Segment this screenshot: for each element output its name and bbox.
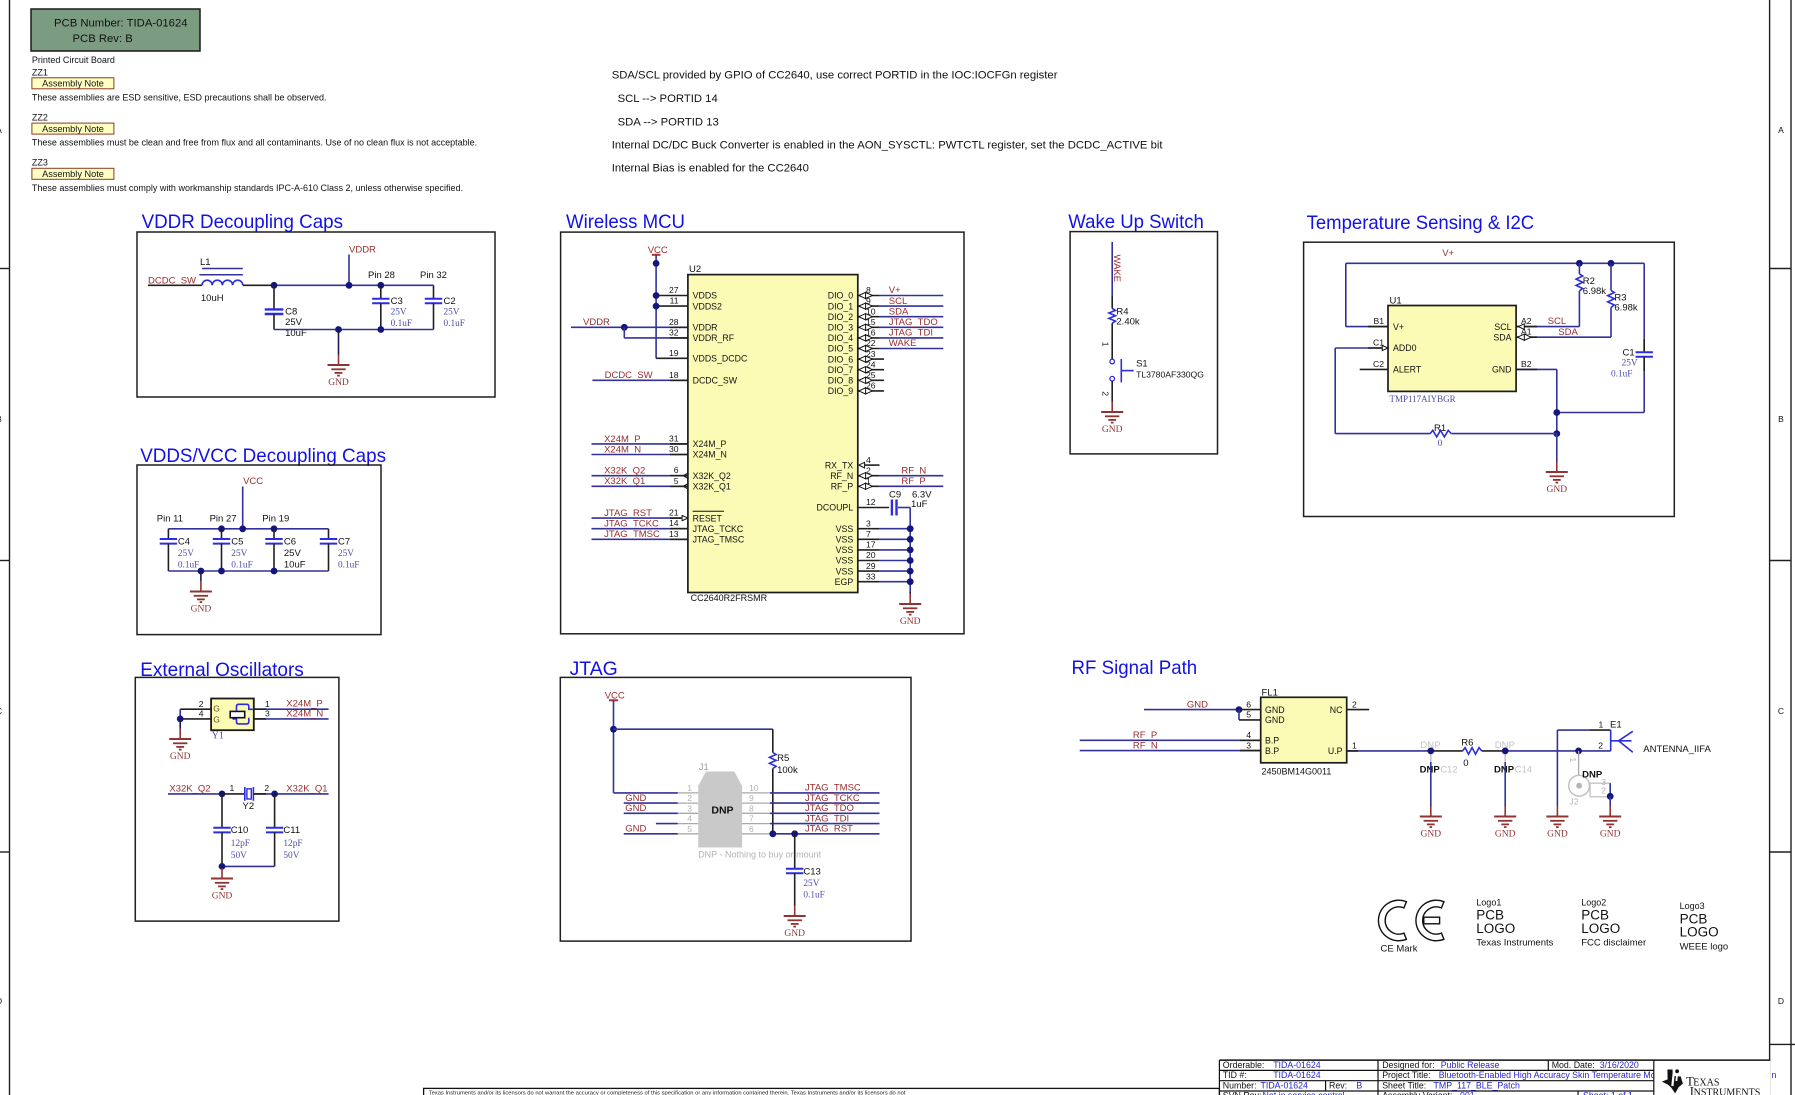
svg-text:27: 27: [669, 285, 679, 295]
pin stub J1 left 3: [678, 812, 698, 814]
svg-text:0.1uF: 0.1uF: [803, 891, 824, 901]
svg-text:3/16/2020: 3/16/2020: [1600, 1060, 1639, 1070]
svg-text:n: n: [1772, 1070, 1777, 1080]
svg-text:TL3780AF330QG: TL3780AF330QG: [1136, 370, 1204, 380]
wire DCDC_SW to L1: [148, 284, 202, 286]
svg-text:Internal Bias is enabled for t: Internal Bias is enabled for the CC2640: [612, 162, 809, 174]
ground C12: [1420, 806, 1442, 840]
svg-text:SCL: SCL: [1548, 316, 1566, 327]
wire J1 pin5 gnd: [624, 833, 678, 835]
power port VCC jtag: [605, 690, 625, 793]
svg-text:GND: GND: [1600, 830, 1621, 840]
wire VSS pin 3: [858, 518, 910, 528]
resistor R5: [770, 729, 798, 834]
ground osc section: [211, 868, 233, 902]
capacitor C10: [213, 794, 250, 867]
svg-text:R5: R5: [777, 753, 789, 764]
wire Y1 gnd stem: [179, 719, 181, 729]
svg-text:3: 3: [1246, 740, 1251, 750]
resistor R3: [1608, 263, 1638, 337]
svg-text:5: 5: [1246, 710, 1251, 720]
junction C14: [1502, 748, 1509, 755]
wire switch to gnd: [1111, 381, 1113, 402]
svg-text:C: C: [1778, 706, 1784, 716]
svg-text:VCC: VCC: [243, 476, 263, 487]
wire VDDR_RF branch: [624, 327, 688, 338]
svg-text:VDDS: VDDS: [693, 291, 718, 301]
pin arrow ADD0: [1382, 345, 1388, 350]
svg-text:C9: C9: [889, 490, 901, 501]
svg-text:C2: C2: [1373, 359, 1384, 369]
junction Pin 28: [377, 282, 384, 289]
svg-text:2: 2: [687, 793, 692, 803]
svg-text:0.1uF: 0.1uF: [391, 319, 412, 329]
svg-text:VDDR: VDDR: [693, 323, 718, 333]
wire GND stem mcu: [909, 592, 911, 594]
svg-text:X32K_Q2: X32K_Q2: [693, 471, 731, 481]
wire X24M_P: [592, 443, 688, 445]
svg-text:D: D: [1778, 996, 1784, 1006]
wire GND stem VDDS: [200, 571, 202, 581]
wire VSS pin 20: [858, 550, 910, 560]
wire DIO net JTAG_TDI: [858, 328, 944, 341]
svg-text:1: 1: [1101, 342, 1111, 347]
connector J2 DNP: [1568, 751, 1610, 806]
svg-text:6: 6: [1246, 699, 1251, 709]
capacitor C7: [320, 529, 360, 571]
section box Wake Up Switch: [1070, 232, 1217, 454]
junction gnd stem: [198, 568, 205, 575]
junction VCC jtag: [610, 726, 617, 733]
svg-text:C1: C1: [1623, 348, 1635, 359]
svg-text:29: 29: [866, 561, 876, 571]
svg-text:GND: GND: [212, 892, 233, 902]
capacitor C8: [265, 285, 307, 339]
svg-text:LOGO: LOGO: [1476, 921, 1515, 936]
wire DIO net SCL: [858, 296, 944, 309]
svg-text:B.P: B.P: [1265, 746, 1279, 756]
svg-text:GND: GND: [784, 929, 805, 939]
section box Wireless MCU: [561, 232, 964, 634]
capacitor C13: [786, 834, 825, 906]
svg-text:6.98k: 6.98k: [1583, 286, 1606, 297]
ground wake section: [1101, 402, 1123, 436]
svg-text:8: 8: [749, 803, 754, 813]
svg-text:GND: GND: [1421, 830, 1442, 840]
svg-text:ADD0: ADD0: [1393, 343, 1417, 353]
capacitor C5: [213, 529, 253, 571]
svg-text:PCB Number: TIDA-01624: PCB Number: TIDA-01624: [54, 18, 188, 30]
svg-text:VDDR Decoupling Caps: VDDR Decoupling Caps: [142, 211, 344, 233]
ground temp section: [1546, 462, 1568, 496]
svg-text:23: 23: [866, 349, 876, 359]
wire JTAG_TMSC mcu: [592, 538, 688, 540]
wire RF_N rf: [1080, 750, 1261, 752]
svg-text:TID #:: TID #:: [1223, 1070, 1247, 1080]
svg-text:GND: GND: [625, 824, 646, 835]
switch S1: [1110, 358, 1204, 382]
wire SCL net: [1516, 326, 1579, 328]
svg-text:Logo3: Logo3: [1680, 901, 1705, 911]
svg-text:GND: GND: [900, 617, 921, 627]
svg-text:WEEE logo: WEEE logo: [1680, 942, 1729, 953]
svg-text:Y1: Y1: [212, 731, 224, 742]
svg-text:B2: B2: [1521, 359, 1532, 369]
svg-text:10uF: 10uF: [284, 560, 306, 571]
svg-text:VSS: VSS: [836, 566, 854, 576]
svg-text:DIO_3: DIO_3: [828, 323, 854, 333]
svg-text:6: 6: [674, 465, 679, 475]
svg-text:25: 25: [866, 370, 876, 380]
svg-text:GND: GND: [1265, 715, 1285, 725]
svg-text:3: 3: [265, 709, 270, 719]
svg-text:Project Title:: Project Title:: [1382, 1070, 1430, 1080]
svg-text:NC: NC: [1330, 705, 1343, 715]
svg-text:PCB Rev: B: PCB Rev: B: [73, 33, 133, 45]
junction R2 top: [1576, 260, 1583, 267]
wire V+ left to B1: [1346, 263, 1388, 326]
wire Y1 pin2: [180, 708, 211, 710]
wire gnd stem osc: [221, 866, 223, 868]
svg-text:100k: 100k: [777, 765, 798, 776]
svg-text:JTAG_TDI: JTAG_TDI: [889, 328, 933, 339]
pin stub fl1 6: [1239, 709, 1261, 711]
page border left line: [9, 0, 11, 1095]
page border right lines: [1769, 0, 1771, 1095]
junction VDDR: [346, 282, 353, 289]
svg-text:10: 10: [749, 783, 759, 793]
wire VSS bus vertical: [909, 508, 911, 592]
svg-text:Logo2: Logo2: [1581, 897, 1606, 907]
svg-text:Printed Circuit Board: Printed Circuit Board: [32, 55, 115, 65]
capacitor C6: [265, 529, 305, 571]
svg-text:2: 2: [1598, 741, 1603, 751]
svg-text:1: 1: [265, 699, 270, 709]
svg-text:ALERT: ALERT: [1393, 365, 1422, 375]
svg-text:VSS: VSS: [836, 545, 854, 555]
svg-text:VDDS_DCDC: VDDS_DCDC: [693, 354, 748, 364]
ground J2: [1599, 806, 1621, 840]
svg-text:FCC disclaimer: FCC disclaimer: [1581, 938, 1646, 949]
svg-text:25V: 25V: [391, 308, 407, 318]
svg-text:3: 3: [866, 518, 871, 528]
wire RF_N net: [858, 465, 944, 478]
wire Y1 gnd vertical: [179, 709, 181, 719]
svg-text:Pin 11: Pin 11: [157, 514, 183, 525]
svg-text:VDDR: VDDR: [349, 245, 376, 256]
junction C5 bottom: [218, 568, 225, 575]
PCB number green box: [31, 9, 200, 51]
svg-text:1: 1: [687, 783, 692, 793]
svg-text:1: 1: [230, 783, 235, 793]
junction C1 gnd: [1553, 409, 1560, 416]
svg-text:19: 19: [669, 348, 679, 358]
logo1 PCB LOGO Texas Instruments: [1476, 897, 1553, 948]
section box JTAG: [560, 677, 911, 941]
svg-text:DCOUPL: DCOUPL: [817, 503, 854, 513]
wire VSS pin 29: [858, 561, 910, 571]
svg-text:14: 14: [669, 518, 679, 528]
ground jtag section: [784, 906, 806, 940]
svg-text:These assemblies are ESD sensi: These assemblies are ESD sensitive, ESD …: [32, 93, 327, 103]
svg-text:VSS: VSS: [836, 524, 854, 534]
pin stub J1 right 7: [742, 823, 770, 825]
svg-text:Not in service control: Not in service control: [1263, 1090, 1345, 1095]
svg-text:2450BM14G0011: 2450BM14G0011: [1262, 767, 1332, 777]
svg-text:12pF: 12pF: [283, 839, 302, 849]
svg-text:A: A: [1778, 125, 1784, 135]
svg-text:SCL --> PORTID 14: SCL --> PORTID 14: [618, 93, 718, 105]
wire SDA net: [1516, 336, 1611, 338]
pin stub J1 left 1: [678, 792, 698, 794]
svg-text:Assembly Variant:: Assembly Variant:: [1382, 1090, 1452, 1095]
wire VSS pin 17: [858, 540, 910, 550]
pin stub DIO 23: [858, 349, 884, 362]
svg-text:26: 26: [866, 381, 876, 391]
connector J1: [698, 762, 821, 860]
wire GND stem VDDR: [338, 330, 340, 355]
svg-text:25V: 25V: [444, 308, 460, 318]
wire pin27 stub: [656, 295, 688, 297]
svg-text:0.1uF: 0.1uF: [178, 561, 199, 571]
svg-text:28: 28: [669, 317, 679, 327]
wire Y1 pin4: [180, 718, 211, 720]
svg-text:25V: 25V: [178, 549, 194, 559]
junction R1 gnd: [1553, 430, 1560, 437]
svg-text:G: G: [213, 715, 220, 725]
page border left zone ticks: [0, 268, 10, 270]
svg-text:Pin 28: Pin 28: [368, 270, 395, 281]
svg-text:32: 32: [669, 327, 679, 337]
svg-text:16: 16: [866, 328, 876, 338]
svg-text:Assembly Note: Assembly Note: [42, 124, 104, 134]
svg-text:VSS: VSS: [836, 535, 854, 545]
svg-text:DIO_8: DIO_8: [828, 376, 854, 386]
svg-text:X24M_N: X24M_N: [693, 450, 727, 460]
svg-text:C5: C5: [231, 537, 243, 548]
resistor R4: [1109, 307, 1140, 328]
junction bottom GND: [335, 326, 342, 333]
svg-text:Pin 27: Pin 27: [210, 514, 237, 525]
section box VDDS/VCC Decoupling Caps: [137, 465, 381, 635]
wire Y1 pin3 X24M_N: [254, 718, 329, 720]
svg-text:Sheet: 1 of 1: Sheet: 1 of 1: [1583, 1090, 1633, 1095]
wire JTAG_TDI jtag: [770, 823, 880, 825]
junction VSS 3: [907, 525, 914, 532]
title block table: [1219, 1060, 1770, 1095]
junction X32K_Q1: [271, 791, 278, 798]
svg-text:2: 2: [264, 783, 269, 793]
wire UP net rf: [1347, 741, 1463, 751]
svg-text:V+: V+: [889, 285, 901, 296]
svg-text:0: 0: [1463, 758, 1468, 769]
section box Temperature Sensing: [1304, 242, 1675, 516]
svg-text:VDDR_RF: VDDR_RF: [693, 333, 735, 343]
svg-text:10uH: 10uH: [201, 293, 224, 304]
svg-text:1uF: 1uF: [911, 499, 928, 510]
wire pin11 stub: [656, 305, 688, 307]
capacitor C3: [372, 285, 412, 329]
svg-text:0.1uF: 0.1uF: [338, 561, 359, 571]
svg-text:WAKE: WAKE: [1111, 255, 1122, 283]
junction C13 rst: [791, 830, 798, 837]
svg-text:C14: C14: [1515, 765, 1532, 776]
svg-text:DCDC_SW: DCDC_SW: [693, 376, 738, 386]
svg-text:GND: GND: [1495, 830, 1516, 840]
svg-text:3: 3: [687, 803, 692, 813]
svg-text:22: 22: [866, 338, 876, 348]
svg-text:DIO_9: DIO_9: [828, 386, 854, 396]
svg-text:ZZ1: ZZ1: [32, 68, 48, 78]
svg-text:G: G: [213, 704, 220, 714]
svg-text:SDA --> PORTID 13: SDA --> PORTID 13: [618, 116, 719, 128]
svg-text:These assemblies must comply w: These assemblies must comply with workma…: [32, 183, 463, 193]
pin arrow SCL: [1519, 324, 1525, 330]
inductor L1: [199, 257, 242, 304]
svg-text:GND: GND: [1102, 425, 1123, 435]
wire VDDR net: [571, 326, 688, 328]
wire X32K_Q2 osc: [168, 793, 222, 795]
svg-text:Rev:: Rev:: [1329, 1080, 1347, 1090]
pin stub DIO 26: [858, 381, 884, 394]
svg-text:20: 20: [866, 550, 876, 560]
wire R4 to switch: [1111, 323, 1113, 359]
svg-text:SVN Rev:: SVN Rev:: [1223, 1090, 1262, 1095]
CE mark logo: [1378, 900, 1443, 954]
svg-text:C11: C11: [283, 825, 300, 836]
junction pin19: [271, 525, 278, 532]
wire fl1 pin5: [1239, 710, 1261, 720]
svg-text:Designed for:: Designed for:: [1382, 1060, 1434, 1070]
svg-text:RF_N: RF_N: [1133, 740, 1158, 751]
wire JTAG_RST jtag: [770, 833, 880, 835]
junction below VCC: [653, 260, 660, 267]
svg-text:DNP: DNP: [1494, 765, 1515, 776]
svg-text:LOGO: LOGO: [1680, 925, 1719, 940]
wire J1 pin4: [656, 823, 678, 825]
svg-text:SDA/SCL provided by GPIO of CC: SDA/SCL provided by GPIO of CC2640, use …: [612, 70, 1058, 82]
capacitor C9: [858, 490, 932, 516]
svg-text:25V: 25V: [285, 317, 303, 328]
svg-text:JTAG_TMSC: JTAG_TMSC: [693, 535, 745, 545]
svg-text:DIO_7: DIO_7: [828, 365, 854, 375]
pin stub J1 right 10: [742, 792, 770, 794]
svg-text:2: 2: [199, 699, 204, 709]
svg-text:TIDA-01624: TIDA-01624: [1273, 1070, 1321, 1080]
power port VCC mcu: [648, 245, 668, 358]
svg-text:V+: V+: [1442, 248, 1454, 259]
svg-text:SDA: SDA: [889, 306, 909, 317]
capacitor C14 DNP: [1494, 740, 1532, 806]
svg-text:LOGO: LOGO: [1581, 921, 1620, 936]
svg-text:V+: V+: [1393, 322, 1404, 332]
svg-text:DNP: DNP: [1420, 765, 1441, 776]
ground C14: [1494, 806, 1516, 840]
wire JTAG_RST mcu: [592, 517, 682, 519]
svg-text:50V: 50V: [231, 851, 247, 861]
svg-text:4: 4: [199, 709, 204, 719]
svg-text:U.P: U.P: [1328, 746, 1343, 756]
capacitor C12 DNP: [1420, 740, 1458, 806]
svg-text:B: B: [0, 414, 2, 424]
svg-text:C6: C6: [284, 537, 296, 548]
ground VDDR section: [328, 355, 350, 389]
capacitor C2: [425, 285, 465, 329]
wire L1 to node: [243, 284, 274, 286]
svg-text:X32K_Q1: X32K_Q1: [693, 482, 731, 492]
svg-text:A: A: [0, 125, 2, 135]
svg-text:X24M_N: X24M_N: [286, 708, 323, 719]
svg-text:Y2: Y2: [243, 801, 255, 812]
svg-text:9: 9: [866, 296, 871, 306]
wire J1 pin2 gnd: [624, 802, 678, 804]
pin stub overdraws U1: [1368, 326, 1388, 328]
svg-text:DIO_0: DIO_0: [828, 291, 854, 301]
pin arrow SDA: [1518, 334, 1532, 340]
pin stub RX_TX: [859, 455, 880, 468]
wire J2 gnd: [1609, 796, 1611, 806]
svg-text:11: 11: [670, 296, 679, 306]
svg-text:4: 4: [866, 455, 871, 465]
wire DIO net SDA: [858, 306, 944, 319]
svg-text:GND: GND: [1265, 705, 1285, 715]
svg-text:21: 21: [669, 508, 679, 518]
balun FL1 2450BM14G0011: [1261, 687, 1347, 776]
capacitor C4: [160, 529, 200, 571]
svg-text:15: 15: [866, 317, 876, 327]
svg-text:EGP: EGP: [835, 577, 854, 587]
svg-text:X32K_Q2: X32K_Q2: [169, 784, 210, 795]
pin stub J1 left 5: [678, 833, 698, 835]
svg-text:X32K_Q1: X32K_Q1: [286, 784, 327, 795]
svg-text:RF_P: RF_P: [901, 476, 925, 487]
svg-text:12: 12: [866, 497, 876, 507]
pin stub DIO 25: [858, 370, 884, 383]
svg-text:25V: 25V: [803, 879, 819, 889]
junction VSS 33: [907, 578, 914, 585]
svg-text:0: 0: [1438, 439, 1443, 449]
svg-text:4: 4: [1246, 730, 1251, 740]
svg-text:5: 5: [674, 476, 679, 486]
power port VCC vdds section: [243, 476, 264, 529]
svg-text:L1: L1: [200, 257, 211, 268]
wire JTAG_TDO jtag: [770, 812, 880, 814]
svg-text:Texas Instruments and/or its l: Texas Instruments and/or its licensors d…: [429, 1091, 906, 1095]
svg-text:5: 5: [687, 824, 692, 834]
svg-text:GND: GND: [1547, 830, 1568, 840]
svg-text:31: 31: [669, 433, 679, 443]
pin stub J1 left 2: [678, 802, 698, 804]
svg-text:1: 1: [866, 476, 871, 486]
wire GND fl1: [1144, 709, 1239, 711]
svg-text:JTAG_RST: JTAG_RST: [805, 824, 853, 835]
junction pin27: [218, 525, 225, 532]
svg-text:12pF: 12pF: [231, 839, 250, 849]
svg-text:TIDA-01624: TIDA-01624: [1273, 1060, 1321, 1070]
junction VSS 29: [907, 568, 914, 575]
section box External Oscillators: [135, 677, 339, 921]
svg-text:RF_P: RF_P: [831, 482, 854, 492]
wire VCC to R5: [614, 728, 773, 730]
svg-text:DNP - Nothing to buy or mount: DNP - Nothing to buy or mount: [698, 850, 821, 860]
wire to R4: [1111, 296, 1113, 309]
svg-text:E1: E1: [1610, 720, 1622, 731]
svg-text:FL1: FL1: [1262, 687, 1278, 698]
wire DIO net V+: [858, 285, 944, 298]
svg-text:0.1uF: 0.1uF: [444, 319, 465, 329]
svg-text:R1: R1: [1434, 423, 1446, 434]
svg-text:B1: B1: [1373, 316, 1384, 326]
